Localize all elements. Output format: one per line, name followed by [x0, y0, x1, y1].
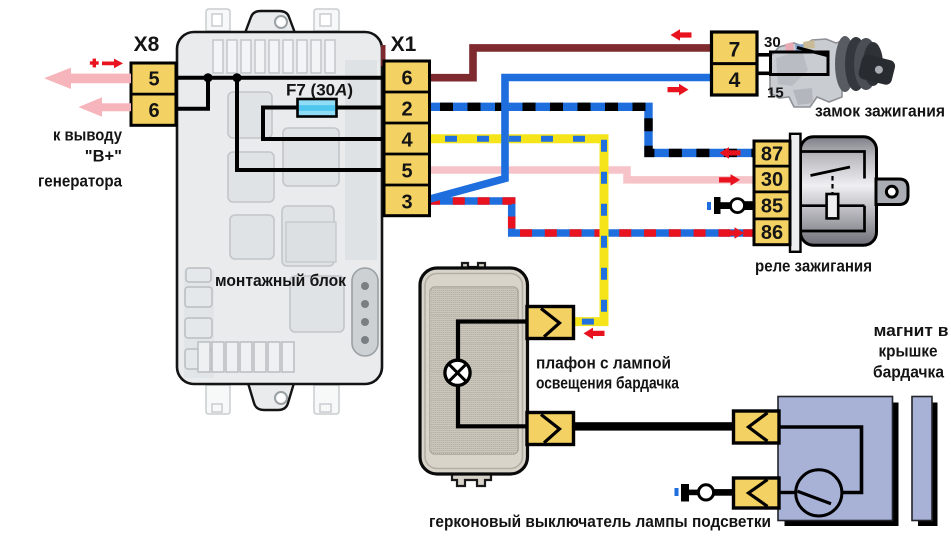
thick wire плафон to reed switch: [570, 422, 736, 430]
svg-text:F7 (30А): F7 (30А): [286, 81, 353, 100]
red arrow to ignition 7 (left): [671, 29, 692, 41]
big pink arrow from X8-6: [79, 97, 132, 116]
relay white mounting strip: [790, 134, 801, 252]
body shading: [776, 50, 808, 86]
callout diagonal: [797, 48, 829, 57]
big pink arrow from X8-5: [44, 68, 131, 89]
connector of ignition switch (pins 7,4): [712, 32, 758, 95]
svg-text:30: 30: [764, 34, 781, 51]
lock barrel face: [863, 42, 883, 86]
relay mounting tab: [876, 179, 908, 205]
wire stub tan: [803, 40, 815, 49]
coloured wires: [429, 48, 755, 322]
wire bus X8-5 / X1-6: [176, 76, 384, 80]
connector X8 (pins 5,6): [131, 63, 176, 125]
relay coil: [827, 194, 839, 218]
junction node on bus (right): [232, 73, 241, 82]
svg-text:87: 87: [761, 144, 783, 166]
mounting clip top left: [206, 9, 230, 31]
red arrow to relay 87 (left): [720, 147, 741, 159]
terminal 15 tick: [759, 72, 772, 76]
монтажный блок (fuse box body): [177, 9, 382, 414]
svg-text:7: 7: [729, 39, 741, 62]
fuse box outline: [177, 32, 382, 384]
wire X1-3 to relay 86 (blue with red dashes): [429, 201, 755, 233]
wire X1-2 to relay 87 (blue with black dashes): [429, 107, 755, 153]
svg-text:бардачка: бардачка: [873, 363, 944, 382]
замок зажигания (ignition switch illustration): [759, 36, 897, 107]
wire X1-2 through fuse F7: [263, 108, 384, 140]
bottom tab: [452, 472, 491, 486]
svg-text:6: 6: [148, 100, 159, 122]
fuse F17: [185, 287, 212, 307]
relay K3: [290, 276, 344, 332]
ground symbol at reed switch: [675, 484, 734, 502]
fuse F19: [185, 349, 212, 369]
svg-text:освещения бардачка: освещения бардачка: [536, 375, 680, 393]
housing outline: [420, 268, 528, 474]
inner rim: [425, 274, 523, 469]
герконовый выключатель (reed switch block) + магнит: [778, 397, 938, 527]
relay K9: [228, 92, 272, 138]
relay K2: [282, 206, 334, 266]
red plus sign: [90, 61, 99, 64]
svg-text:15: 15: [767, 85, 784, 102]
connector K4 pad: [286, 222, 336, 262]
relay actuator dashed link: [831, 176, 833, 194]
lock barrel ring 1: [835, 36, 855, 92]
wire X8-6 up to bus: [176, 78, 208, 109]
fuse F20: [186, 268, 211, 282]
side capsule with contacts: [352, 268, 378, 356]
black callout rectangle on switch: [771, 52, 829, 75]
svg-text:86: 86: [761, 222, 783, 244]
internal black wires of fuse box: [176, 78, 384, 170]
relay K6: [228, 152, 274, 202]
svg-text:4: 4: [401, 130, 413, 152]
wire stub pink: [785, 42, 794, 54]
relay internal contact rail top: [800, 152, 865, 179]
svg-text:X1: X1: [391, 33, 417, 56]
small red arrow right (charge direction): [102, 59, 123, 69]
wire ignition switch 4 to X1-3 (blue): [430, 78, 712, 200]
fuse F18: [185, 318, 212, 338]
red arrow to relay 86 (right): [723, 227, 744, 239]
connectors: [131, 32, 779, 508]
svg-text:герконовый выключатель лампы п: герконовый выключатель лампы подсветки: [429, 513, 771, 531]
плафон освещения бардачка (lamp housing): [420, 263, 531, 486]
svg-text:"В+": "В+": [85, 148, 122, 166]
svg-text:замок зажигания: замок зажигания: [815, 102, 945, 121]
lock barrel ring 3: [854, 38, 878, 90]
arrows: [44, 29, 744, 339]
top teeth row (connector X1 teeth): [213, 40, 335, 73]
svg-text:к выводу: к выводу: [53, 127, 123, 145]
wire sliver behind fuse box corner (dark red): [381, 45, 386, 66]
lamp symbol: [445, 360, 470, 385]
svg-text:3: 3: [401, 192, 412, 214]
svg-text:крышке: крышке: [879, 342, 938, 361]
wire lamp to upper connector: [458, 322, 531, 361]
svg-text:реле зажигания: реле зажигания: [755, 257, 872, 276]
connector X1 (pins 6,2,4,5,3): [384, 61, 430, 216]
switch body casting: [770, 39, 842, 107]
key: [857, 53, 896, 85]
relay internal rail bottom: [800, 206, 865, 231]
magnet body: [912, 397, 932, 521]
svg-text:4: 4: [729, 69, 741, 92]
плафон lower connector (chevron): [527, 413, 574, 445]
wire lamp to lower connector: [458, 385, 531, 427]
mounting clip bottom right: [314, 385, 339, 414]
red arrow to relay 30 (right): [719, 174, 740, 186]
red arrow to плафон connector (left): [584, 328, 605, 340]
reed switch lower connector (chevron): [734, 478, 780, 508]
wire X1-5 to relay 30 (pink): [429, 170, 755, 180]
mounting clip bottom left: [206, 385, 230, 414]
svg-text:магнит в: магнит в: [874, 321, 949, 340]
reed internal wire bottom: [779, 491, 795, 494]
wire X1-6 to ignition switch 7 (dark red): [429, 48, 712, 78]
relay реле зажигания: [754, 134, 908, 252]
relay K1: [283, 128, 339, 186]
lock barrel ring 2: [845, 37, 867, 91]
junction node on bus (left): [203, 73, 212, 82]
relay switch blade: [811, 167, 851, 176]
red arrow from ignition 4 (right): [668, 84, 689, 96]
relay K7: [230, 215, 274, 259]
svg-text:30: 30: [761, 169, 783, 191]
svg-text:генератора: генератора: [38, 173, 123, 191]
fuse F7: [298, 99, 337, 117]
reed internal wire top: [779, 427, 862, 493]
svg-text:X8: X8: [134, 33, 160, 56]
wire bus down to X1-5: [237, 78, 384, 170]
textured lens panel: [430, 287, 518, 454]
wire X1-4 to плафон connector (yellow with blue dashes): [429, 139, 604, 322]
reed switch upper connector (chevron): [734, 411, 780, 443]
svg-text:85: 85: [761, 195, 783, 217]
inner shading panels: [345, 60, 377, 260]
top tab: [462, 263, 485, 270]
magnet shadow: [918, 403, 938, 527]
lens ridge lines: [430, 315, 518, 427]
svg-text:монтажный блок: монтажный блок: [215, 272, 347, 290]
svg-text:5: 5: [148, 69, 159, 91]
svg-text:плафон с лампой: плафон с лампой: [536, 355, 671, 373]
svg-text:2: 2: [401, 99, 412, 121]
terminal 30 tick: [759, 53, 771, 57]
bottom fuse teeth row F10-F16: [198, 342, 294, 372]
reed switch contact symbol: [796, 470, 842, 516]
svg-text:5: 5: [401, 161, 412, 183]
svg-text:6: 6: [401, 68, 412, 90]
wire stub blue: [795, 44, 804, 51]
relay body: [801, 137, 877, 246]
ground symbol at relay 85: [707, 197, 755, 214]
reed block body: [778, 397, 893, 521]
top lug with hole: [245, 11, 295, 33]
relay connector (pins 87,30,85,86): [754, 141, 790, 245]
плафон upper connector (chevron): [527, 307, 574, 339]
bottom lug with hole: [248, 383, 294, 410]
mounting clip top right: [314, 9, 339, 31]
reed block shadow: [785, 403, 899, 527]
